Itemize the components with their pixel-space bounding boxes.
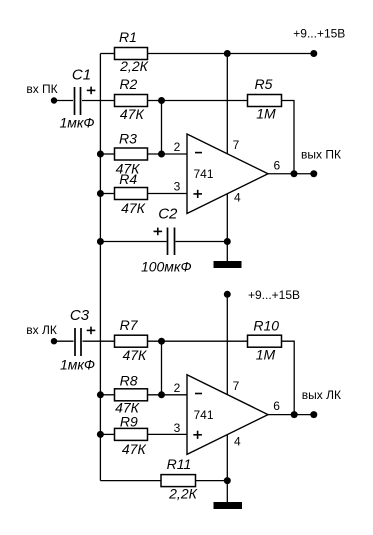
junction bus/C2 — [97, 238, 104, 245]
svg-text:R11: R11 — [167, 456, 192, 472]
svg-text:3: 3 — [174, 180, 181, 194]
svg-text:4: 4 — [234, 435, 241, 449]
svg-text:7: 7 — [233, 138, 240, 152]
svg-text:2,2К: 2,2К — [168, 486, 197, 502]
wire node pin2-2 vertical — [161, 341, 163, 395]
junction feedback R5/output — [291, 170, 298, 177]
svg-text:1мкФ: 1мкФ — [59, 115, 94, 131]
capacitor C2 — [141, 206, 192, 275]
wire bus to R11 — [100, 480, 161, 482]
junction supply/pin7 U1 — [224, 50, 231, 57]
svg-text:C3: C3 — [70, 307, 90, 324]
junction R7 output node — [158, 338, 165, 345]
wire pin7-2 supply stub — [226, 294, 228, 395]
svg-text:1М: 1М — [256, 106, 276, 122]
wire pin4-2 to ground — [226, 434, 228, 502]
node pin 2 U1 — [158, 151, 165, 158]
svg-text:2: 2 — [174, 140, 181, 154]
resistor R3 — [115, 131, 148, 177]
svg-text:1М: 1М — [256, 347, 276, 363]
svg-text:R7: R7 — [120, 317, 139, 333]
power terminal 2 — [224, 288, 300, 302]
junction bus/R8 — [97, 391, 104, 398]
svg-text:R10: R10 — [253, 318, 279, 334]
svg-text:1мкФ: 1мкФ — [60, 356, 95, 372]
output terminal 2 — [302, 388, 341, 418]
svg-text:3: 3 — [174, 421, 181, 435]
wire R3 left — [100, 153, 114, 155]
svg-text:47К: 47К — [122, 441, 147, 457]
capacitor C1 — [59, 67, 95, 131]
power terminal 1 — [293, 27, 345, 58]
op-amp U1 — [174, 134, 281, 214]
wire R11 right — [196, 480, 228, 482]
resistor R11 — [161, 456, 198, 502]
wire output2 — [267, 414, 314, 416]
svg-text:47К: 47К — [120, 106, 145, 122]
svg-text:вх ЛК: вх ЛК — [26, 323, 57, 337]
svg-text:7: 7 — [233, 379, 240, 393]
wire R8 to pin 2 — [148, 394, 188, 396]
resistor R8 — [115, 373, 148, 416]
svg-text:R5: R5 — [255, 76, 273, 92]
svg-text:R9: R9 — [120, 414, 138, 430]
junction bus/R3 — [97, 151, 104, 158]
resistor R4 — [115, 171, 148, 216]
svg-text:2,2К: 2,2К — [119, 58, 148, 74]
svg-text:47К: 47К — [121, 200, 146, 216]
svg-text:C1: C1 — [72, 67, 91, 84]
svg-text:+9...+15В: +9...+15В — [293, 27, 345, 41]
wire C2 left — [100, 241, 166, 243]
svg-text:741: 741 — [193, 167, 213, 181]
wire R1 right to +V terminal — [148, 53, 314, 55]
svg-text:100мкФ: 100мкФ — [141, 258, 192, 274]
svg-text:741: 741 — [193, 408, 213, 422]
wire R3 to pin 2 — [148, 153, 188, 155]
wire R1 left — [100, 53, 114, 55]
svg-text:R4: R4 — [119, 171, 137, 187]
wire R7 to R10 — [148, 340, 248, 342]
wire R4 left — [100, 193, 114, 195]
svg-text:47К: 47К — [122, 347, 147, 363]
ground 2 — [214, 502, 243, 509]
wire C2 right — [176, 241, 228, 243]
ground 1 — [214, 261, 242, 268]
wire R8 left — [100, 394, 114, 396]
junction R2 output node — [158, 97, 165, 104]
resistor R10 — [248, 318, 282, 363]
node pin 2 U2 — [158, 391, 165, 398]
wire input2 to C3 — [54, 340, 74, 342]
wire R9 left — [100, 433, 114, 435]
resistor R2 — [115, 76, 148, 122]
wire bias bus vertical — [99, 54, 101, 481]
junction R11/pin4 — [224, 477, 231, 484]
junction C2/pin4 — [224, 238, 231, 245]
wire R2 to R5 — [148, 100, 248, 102]
junction bus/R9 — [97, 431, 104, 438]
wire pin7-1 supply — [226, 54, 228, 154]
svg-text:R1: R1 — [119, 29, 137, 45]
wire R10 right feedback — [282, 341, 295, 414]
resistor R7 — [115, 317, 148, 363]
wire R9 to pin 3 — [148, 433, 188, 435]
resistor R1 — [115, 29, 149, 74]
wire output1 — [267, 173, 314, 175]
svg-text:вых ПК: вых ПК — [301, 147, 341, 161]
svg-text:R3: R3 — [119, 131, 137, 147]
svg-text:6: 6 — [273, 399, 280, 413]
wire pin4-1 to ground — [226, 194, 228, 262]
svg-text:вх ПК: вх ПК — [26, 82, 57, 96]
input terminal 1 — [26, 82, 57, 104]
svg-text:6: 6 — [273, 159, 280, 173]
op-amp U2 — [174, 375, 281, 455]
wire C1 to R2 — [82, 100, 115, 102]
svg-text:4: 4 — [234, 191, 241, 205]
resistor R5 — [248, 76, 282, 122]
junction feedback R10/output — [291, 411, 298, 418]
input terminal 2 — [26, 323, 57, 345]
junction bus/R4 — [97, 190, 104, 197]
wire R5 right feedback — [282, 101, 295, 174]
svg-text:R8: R8 — [120, 373, 138, 389]
svg-text:2: 2 — [174, 381, 181, 395]
svg-text:+9...+15В: +9...+15В — [248, 288, 300, 302]
resistor R9 — [115, 414, 148, 458]
output terminal 1 — [301, 147, 341, 177]
capacitor C3 — [60, 307, 95, 372]
svg-text:вых ЛК: вых ЛК — [302, 388, 341, 402]
svg-text:C2: C2 — [158, 206, 178, 223]
wire R4 to pin 3 — [148, 193, 188, 195]
wire input1 to C1 — [54, 100, 73, 102]
svg-text:R2: R2 — [119, 76, 137, 92]
wire C3 to R7 — [83, 340, 115, 342]
wire node pin2-1 vertical — [161, 101, 163, 155]
